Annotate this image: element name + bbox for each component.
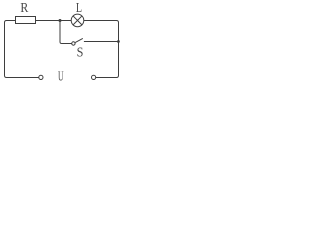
wire left side + bottom-left [5,21,39,78]
wire branch down to switch [60,21,72,44]
node junction right (dot) [117,40,120,43]
resistor R [16,17,36,24]
svg-text:L: L [76,0,82,15]
wire resistor to lamp [36,20,72,22]
lamp L [71,14,84,27]
terminal right [92,75,96,79]
node junction top (dot) [59,19,62,22]
switch S [72,38,119,45]
svg-text:S: S [77,44,84,60]
svg-text:U: U [58,69,64,84]
wire lamp to top-right corner, down right side [84,21,119,78]
terminal left [39,75,43,79]
svg-text:R: R [20,0,28,15]
